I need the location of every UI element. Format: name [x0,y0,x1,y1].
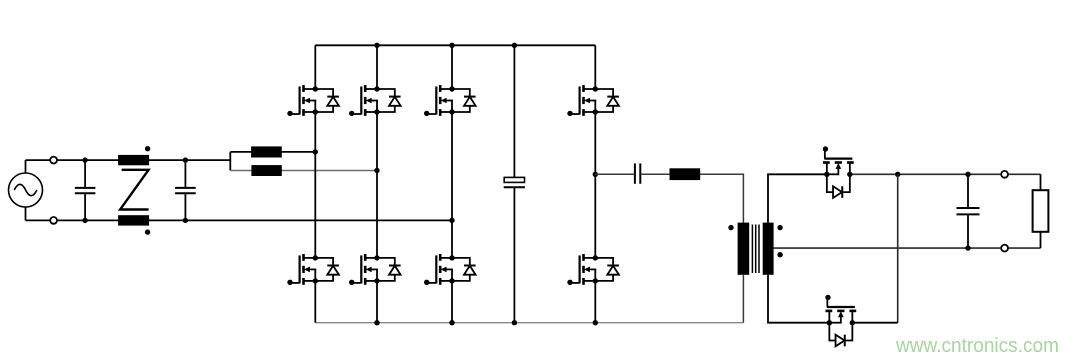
inductor L3 [251,165,281,176]
capacitor C1 [75,160,96,220]
wire: DC bus top rail [315,44,595,46]
wire: top branch to leg1 midpoint [230,151,315,153]
node: leg1 midpoint [313,149,318,154]
transistor Q5 [287,254,339,285]
node: leg3 midpoint [449,218,454,223]
input terminal top [50,157,57,164]
capacitor C2 [175,160,196,220]
wire: center tap to output [774,247,1041,249]
wire: leg4 vertical [594,45,596,322]
wire: secondary bottom lead [768,275,829,323]
wire: leg4 mid to resonant cap [595,173,634,175]
node: top rail leg2 [374,43,379,48]
common-mode choke L1 [118,146,150,235]
wire: AC live top [26,159,231,161]
wire: resonant cap to transformer [641,174,743,222]
capacitor C4 resonant [635,163,640,183]
node: C1 bottom junction [82,218,87,223]
wire: secondary bottom rail right of Q10 [853,322,898,324]
transistor Q4 [567,85,619,116]
wire: leg3 vertical [451,45,453,322]
wire: split vertical [229,152,231,171]
transistor Q6 [349,254,401,285]
wire: primary bottom to rail [742,275,744,323]
capacitor C5 output [957,174,980,248]
transistor Q2 [349,85,401,116]
capacitor C3 bulk electrolytic [504,45,525,322]
node: C2 top junction [183,157,188,162]
node: top rail leg3 [449,43,454,48]
node: rectified node top [895,172,900,177]
wire: leg1 vertical [314,45,316,322]
transistor Q1 [287,85,339,116]
wire: leg2 vertical [376,45,378,322]
transformer T1 [728,223,783,275]
output terminal top [1001,171,1008,178]
node: leg2 midpoint [374,168,379,173]
inductor L2 [251,146,282,157]
node: leg4 midpoint [593,172,598,177]
transistor Q10 [825,295,856,347]
wire: secondary top rail right of Q9 [850,173,1041,175]
wire: secondary top lead [768,174,827,222]
wire: AC neutral bottom [26,219,453,221]
node: bottom rail leg2 [374,320,379,325]
wire: rectified node vertical [897,174,899,322]
watermark [896,336,1059,356]
transistor Q7 [424,254,476,285]
node: bottom rail leg3 [449,320,454,325]
wire: DC bus bottom rail [315,322,743,324]
node: bottom rail leg4 [593,320,598,325]
node: C1 top junction [82,157,87,162]
output terminal bottom [1001,245,1008,252]
node: output cap bottom [965,245,970,250]
ac source V1 [9,160,43,220]
transistor Q9 [823,146,854,198]
node: output cap top [965,172,970,177]
transistor Q3 [424,85,476,116]
input terminal bottom [50,217,57,224]
node: C2 bottom junction [183,218,188,223]
node: top rail bulk cap [512,43,517,48]
transistor Q8 [567,254,619,285]
inductor L4 resonant [670,168,701,180]
resistor R1 load [1033,174,1049,248]
wire: bottom branch to leg2 midpoint [230,170,377,172]
node: bottom rail bulk cap [512,320,517,325]
